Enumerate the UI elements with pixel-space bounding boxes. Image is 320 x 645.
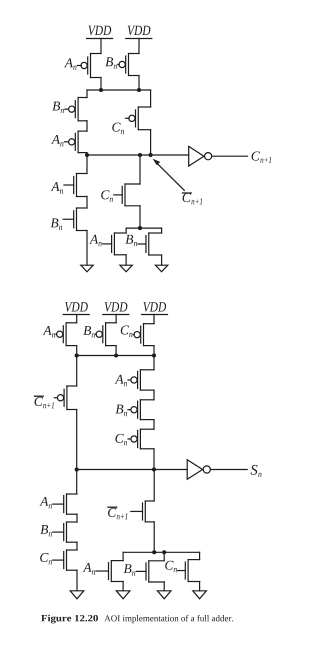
transistor PMOS P16 (gate Bn, sum pull-up series) xyxy=(131,400,154,420)
ground (sum branch 4) xyxy=(193,591,207,599)
ground (carry middle branch) xyxy=(120,265,132,272)
transistor NMOS N21 (gate Cbar n+1, sum pull-down) xyxy=(143,501,155,522)
wire N6-N7 link xyxy=(86,197,88,209)
ground (carry left branch) xyxy=(81,265,93,272)
transistor PMOS P15 (gate An, sum pull-up series) xyxy=(131,370,154,390)
transistor NMOS N18 (gate An, sum pull-down) xyxy=(64,494,77,514)
label Cn (N24 gate) xyxy=(165,561,185,573)
wire mid rail right drop xyxy=(199,552,201,559)
junction dot rail left xyxy=(85,153,89,157)
transistor NMOS N19 (gate Bn, sum pull-down) xyxy=(64,522,77,542)
label An (P4 gate) xyxy=(51,135,68,147)
label Bn (P3 gate) xyxy=(52,102,68,113)
wire P12 to rail xyxy=(115,346,117,356)
label An (N6 gate) xyxy=(51,182,74,194)
label Bn (P16 gate) xyxy=(116,405,131,416)
label Cn (N8 gate) xyxy=(101,190,122,202)
junction dot P12 tap xyxy=(114,353,118,357)
wire mid rail to N23 xyxy=(163,552,165,561)
label Bn (N19 gate) xyxy=(40,525,63,536)
wire output node rail (Cbar n+1) xyxy=(87,154,189,156)
transistor NMOS N9 (gate An, carry pull-down parallel) xyxy=(112,233,127,255)
wire output node rail (Sbar) xyxy=(77,469,188,471)
junction dot Cn NMOS tap xyxy=(138,153,142,157)
junction dot P13 tap xyxy=(152,353,156,357)
junction dot N21 tap xyxy=(152,550,156,554)
wire P17 to output rail xyxy=(153,449,155,470)
wire P5 to output rail xyxy=(150,130,152,155)
inverter U1 (carry output) xyxy=(189,146,212,166)
inverter U2 (sum output) xyxy=(187,460,210,480)
wire P16-P17 link xyxy=(153,420,155,430)
label Sn output xyxy=(251,465,262,477)
label Cn+1 output xyxy=(252,152,272,163)
wire N23 to ground xyxy=(163,582,165,591)
transistor NMOS N23 (gate Bn, sum pull-down parallel) xyxy=(146,561,164,582)
transistor NMOS N10 (gate Bn, carry pull-down parallel) xyxy=(146,233,162,255)
wire N10 to ground xyxy=(161,255,163,265)
transistor PMOS P3 (gate Bn, carry pull-up series) xyxy=(69,98,87,121)
label Bn (N23 gate) xyxy=(124,564,146,575)
transistor PMOS P11 (gate An, sum pull-up) xyxy=(57,323,77,346)
wire mid rail (sum) xyxy=(123,551,200,553)
wire N24 to ground xyxy=(199,582,201,591)
junction dot N23 tap xyxy=(162,550,166,554)
junction dot P11 tap xyxy=(75,353,79,357)
transistor NMOS N22 (gate An, sum pull-down parallel) xyxy=(109,561,124,582)
wire rail to P14 xyxy=(76,356,78,387)
label Cn (P17 gate) xyxy=(115,434,130,446)
wire N7 to ground xyxy=(86,231,88,266)
label An (P15 gate) xyxy=(115,375,131,387)
power VDD rail 4 (sum circuit) xyxy=(103,302,129,323)
ground (sum left branch) xyxy=(70,591,84,599)
label Bn (N10 gate) xyxy=(125,235,145,246)
wire P11 to rail xyxy=(76,346,78,356)
wire N9 to ground xyxy=(125,255,127,265)
wire N1 right drop xyxy=(150,90,152,107)
wire node rail N2 (sum) xyxy=(77,355,154,357)
transistor NMOS N24 (gate Cn, sum pull-down parallel) xyxy=(185,560,199,582)
junction dot sum rail left xyxy=(75,467,79,471)
wire rail to N18 xyxy=(76,470,78,495)
transistor PMOS P4 (gate An, carry pull-up series) xyxy=(69,131,87,153)
power VDD rail 2 (carry circuit) xyxy=(126,26,152,54)
junction dot P1-N1 xyxy=(99,88,103,92)
label Bn (N7 gate) xyxy=(51,219,74,230)
ground (carry right branch) xyxy=(155,265,167,272)
label An (N22 gate) xyxy=(83,563,109,575)
wire mid rail right drop xyxy=(161,228,163,233)
transistor NMOS N6 (gate An, carry pull-down) xyxy=(74,174,87,197)
ground (sum branch 3) xyxy=(157,591,171,599)
wire rail to P15 xyxy=(153,356,155,370)
wire N20 to ground xyxy=(76,570,78,591)
arrow to Cbar n+1 node xyxy=(153,159,185,191)
transistor PMOS P14 (gate Cbar n+1, sum pull-up) xyxy=(57,386,76,410)
transistor PMOS P5 (gate Cn, carry pull-up) xyxy=(129,107,151,130)
wire N21 to mid rail xyxy=(153,522,155,552)
wire N22 to ground xyxy=(122,582,124,591)
wire P14 to output rail xyxy=(76,410,78,470)
wire P4 to output rail xyxy=(86,153,88,155)
caption Figure 12.20 AOI implementation of a full adder xyxy=(41,615,233,624)
label Cbar n+1 (P14 gate) xyxy=(35,396,58,408)
junction dot Cn PMOS tap xyxy=(149,153,153,157)
transistor PMOS P2 (gate Bn, carry pull-up) xyxy=(119,54,139,76)
wire N19-N20 link xyxy=(76,542,78,550)
wire rail to N21 xyxy=(153,470,155,502)
wire mid rail left drop xyxy=(125,228,127,233)
wire mid rail (carry) xyxy=(126,227,162,229)
transistor PMOS P17 (gate Cn, sum pull-up series) xyxy=(131,429,154,449)
label An (N18 gate) xyxy=(39,497,63,509)
power VDD rail 5 (sum circuit) xyxy=(142,302,168,324)
junction dot N8 tap xyxy=(138,226,142,230)
power VDD rail 1 (carry circuit) xyxy=(87,26,113,54)
label Cn (N20 gate) xyxy=(40,553,64,565)
label Bn (P12 gate) xyxy=(83,326,96,337)
transistor PMOS P1 (gate An, carry pull-up) xyxy=(81,54,101,78)
transistor PMOS P13 (gate Cn, sum pull-up) xyxy=(134,324,154,346)
label Bn (P2 gate) xyxy=(105,57,119,68)
wire inverter 2 output xyxy=(211,469,247,471)
label An (N9 gate) xyxy=(89,235,111,247)
wire P15-P16 link xyxy=(153,390,155,400)
wire mid rail left drop xyxy=(122,552,124,560)
label An (P1 gate) xyxy=(64,58,81,70)
power VDD rail 3 (sum circuit) xyxy=(63,302,89,323)
junction dot P2-N1 xyxy=(137,88,141,92)
wire inverter output xyxy=(212,155,247,157)
wire P1 drain to rail xyxy=(100,78,102,91)
transistor NMOS N20 (gate Cn, sum pull-down) xyxy=(64,550,77,570)
transistor PMOS P12 (gate Bn, sum pull-up) xyxy=(96,323,116,346)
wire N18-N19 link xyxy=(76,514,78,522)
label An (P11 gate) xyxy=(43,326,57,338)
wire P2 drain to rail xyxy=(138,76,140,91)
transistor NMOS N8 (gate Cn, carry pull-down) xyxy=(122,184,140,206)
wire P3-P4 link xyxy=(86,121,88,131)
label Cn (P5 gate) xyxy=(112,118,129,134)
wire N1 left drop xyxy=(86,90,88,98)
wire rail to N6 xyxy=(86,155,88,174)
label Cbar n+1 (N21 gate) xyxy=(108,507,143,519)
label Cn (P13 gate) xyxy=(121,326,134,338)
wire N8 to mid rail xyxy=(139,206,141,228)
wire node rail N1 (carry) xyxy=(87,89,151,91)
wire P13 to rail xyxy=(153,346,155,356)
wire rail to N8 xyxy=(139,155,141,184)
label Cbar n+1 node xyxy=(183,193,203,204)
transistor NMOS N7 (gate Bn, carry pull-down) xyxy=(74,208,87,231)
ground (sum branch 2) xyxy=(116,591,130,599)
junction dot sum rail mid xyxy=(152,467,156,471)
